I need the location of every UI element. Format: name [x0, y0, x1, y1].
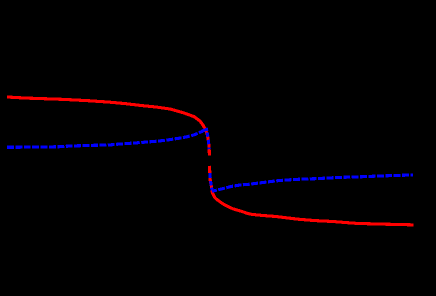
blue steep dash segment 7 — [210, 188, 214, 191]
blue steep dash segment 6 — [209, 181, 213, 185]
blue curve left branch (dashed) — [7, 128, 206, 147]
red curve right branch — [210, 178, 413, 225]
red mid dash — [208, 166, 211, 173]
blue steep dash segment 4 — [208, 148, 211, 150]
blue steep dash segment 5 — [208, 173, 212, 178]
blue steep dash segment 2 — [206, 133, 210, 137]
blue steep dash segment 3 — [207, 140, 211, 144]
blue steep dash segment 1 — [205, 128, 209, 131]
blue curve right branch (dashed) — [212, 175, 413, 191]
red curve left branch — [7, 97, 209, 155]
